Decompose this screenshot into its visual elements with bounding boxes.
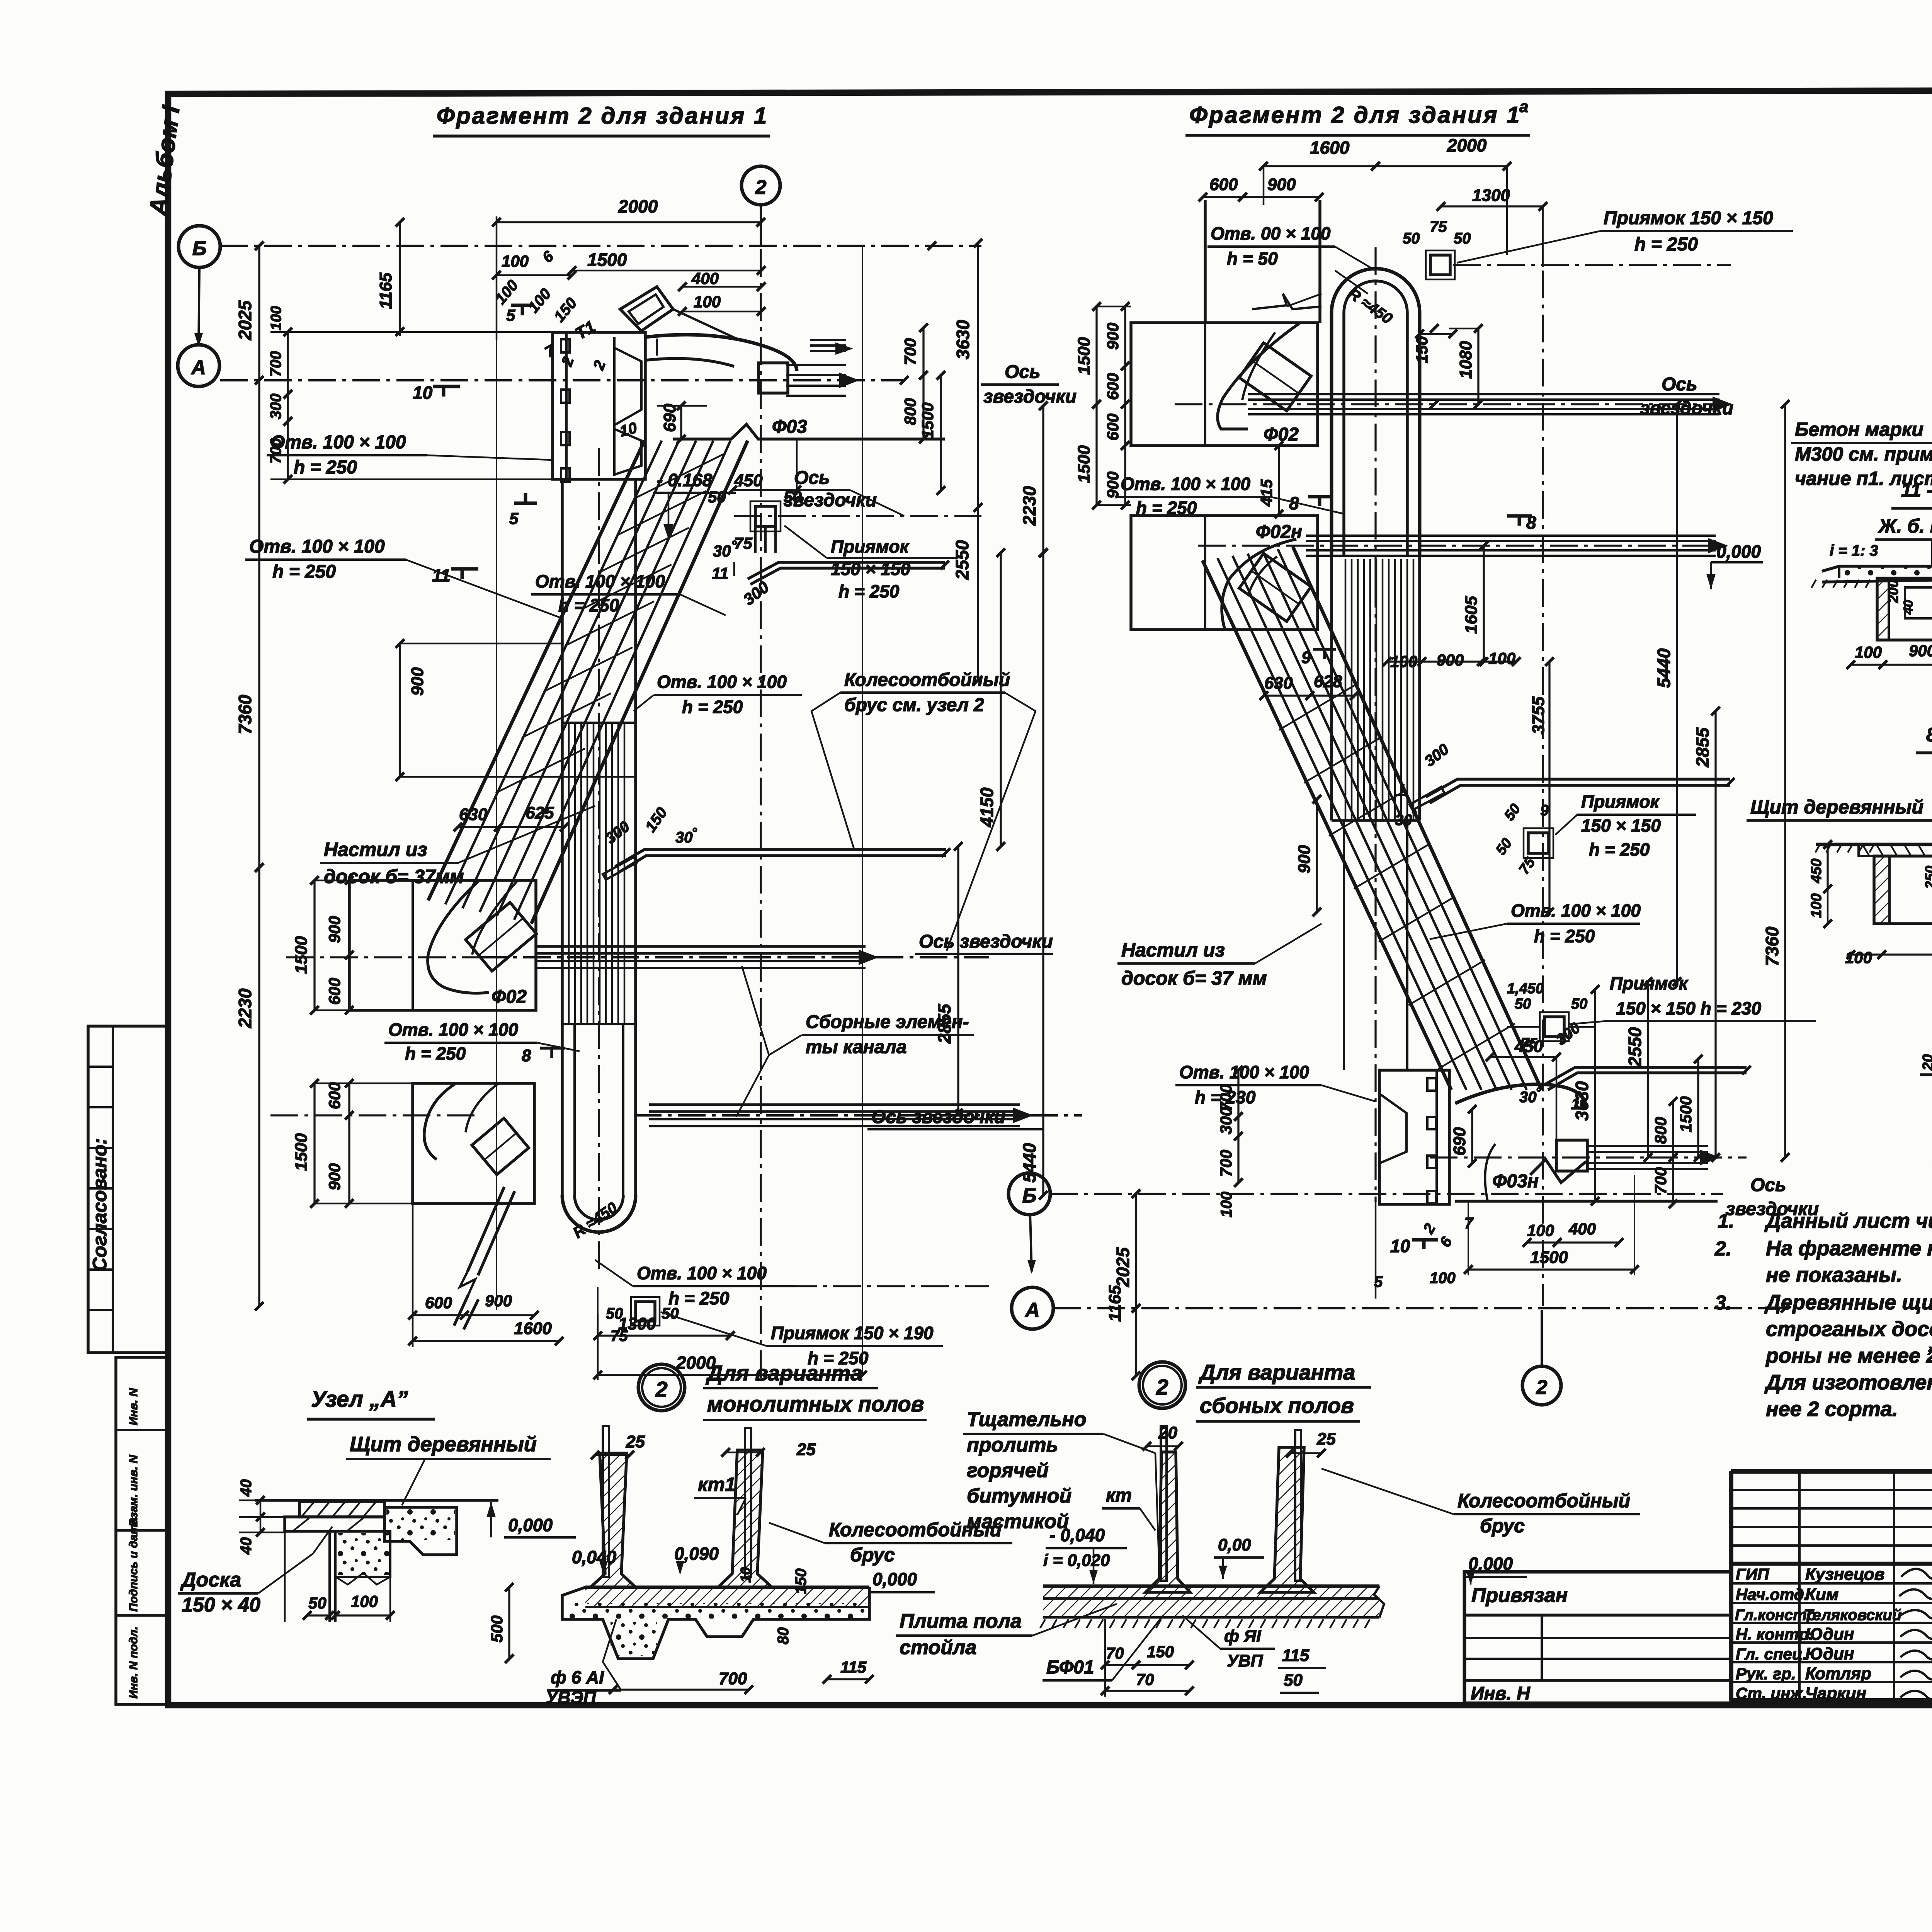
svg-text:досок б= 37 мм: досок б= 37 мм [1121,967,1267,989]
svg-text:Альбом I: Альбом I [144,104,185,218]
svg-text:Инв. Н: Инв. Н [1471,1683,1531,1704]
wheel guard rail 2 right fragment [1545,1067,1747,1084]
svg-text:1500: 1500 [292,1133,311,1171]
svg-text:звездочки: звездочки [1640,398,1733,419]
break mark in column [1252,294,1321,309]
svg-text:450: 450 [1808,859,1825,883]
svg-text:150: 150 [793,1568,810,1594]
svg-text:1600: 1600 [1310,138,1350,158]
axis link Б-А left [199,267,199,345]
svg-text:600: 600 [1104,414,1122,441]
svg-text:не показаны.: не показаны. [1766,1263,1902,1287]
grid line 2 vertical right fragment [1542,271,1544,1306]
svg-text:1500: 1500 [587,250,627,270]
dimension 450 FO3n [1490,1056,1556,1058]
section 6-6 ground line [1920,1073,1932,1076]
svg-text:Отв. 100 × 100: Отв. 100 × 100 [657,672,787,692]
svg-text:брус см. узел 2: брус см. узел 2 [844,695,984,715]
title block lower rows [1731,1582,1932,1585]
monolithic floor slab [585,1586,869,1589]
deck plank hatching on band [634,454,723,499]
precast left curb [1146,1452,1190,1592]
svg-text:2: 2 [1156,1375,1168,1399]
svg-text:500: 500 [488,1615,506,1643]
svg-text:900: 900 [1267,175,1296,194]
svg-text:100: 100 [1488,649,1515,667]
svg-text:150: 150 [1147,1643,1174,1661]
svg-text:а: а [1519,97,1528,116]
right dim chain right fragment [1647,982,1649,1157]
svg-text:ф 6 АI: ф 6 АI [551,1667,604,1687]
svg-text:0,040: 0,040 [572,1547,617,1567]
svg-text:Ось: Ось [794,468,830,488]
svg-text:800: 800 [901,398,919,425]
svg-text:горячей: горячей [967,1459,1049,1482]
svg-text:100: 100 [268,306,284,330]
node A wood shield band [299,1501,384,1517]
svg-text:Ось: Ось [1750,1175,1786,1195]
svg-text:3755: 3755 [1529,696,1548,734]
svg-text:100: 100 [502,252,529,270]
svg-text:100: 100 [1845,948,1872,967]
svg-text:Ось: Ось [1005,362,1041,382]
svg-text:Отв. 100 × 100: Отв. 100 × 100 [249,536,385,557]
svg-text:2: 2 [655,1377,667,1401]
svg-text:Н. контр.: Н. контр. [1736,1625,1813,1643]
svg-text:М300 см. приме-: М300 см. приме- [1795,443,1932,465]
node A deck top line [255,1499,498,1502]
U-turn loop right fragment [1332,269,1420,557]
svg-text:h = 250: h = 250 [682,697,743,717]
svg-text:25: 25 [796,1440,816,1459]
wheel guard rail 2 left fragment [615,849,946,866]
node A dims [260,1500,262,1517]
svg-text:1500: 1500 [1677,1096,1695,1132]
svg-text:300: 300 [1217,1107,1235,1134]
svg-text:300: 300 [267,393,284,419]
dimension 100 900 100 right [1387,660,1422,662]
axis line А left fragment [220,379,904,381]
svg-text:75: 75 [734,534,752,552]
svg-text:50: 50 [1571,996,1587,1012]
precast left plank [1161,1426,1167,1581]
svg-text:80: 80 [775,1627,792,1645]
svg-text:1605: 1605 [1462,596,1481,634]
svg-text:Настил из: Настил из [1121,939,1225,961]
channel FO3 exit rails upper [810,339,846,341]
section 8-8 wood deck [1859,844,1932,856]
svg-text:9: 9 [1301,648,1311,667]
svg-text:628: 628 [1314,672,1342,691]
svg-text:40: 40 [238,1479,255,1497]
svg-text:Тщательно: Тщательно [967,1408,1087,1431]
svg-text:Гл. спец.: Гл. спец. [1736,1645,1807,1663]
svg-text:R ≈450: R ≈450 [1345,285,1396,327]
svg-text:700: 700 [1217,1150,1235,1177]
svg-text:100: 100 [1527,1221,1554,1239]
svg-text:h = 250: h = 250 [1589,839,1650,860]
dimension 690 FO3 [680,406,682,439]
svg-text:нее 2 сорта.: нее 2 сорта. [1766,1398,1898,1421]
dimension 900 right [1316,799,1318,912]
svg-text:5440: 5440 [1019,1143,1039,1183]
svg-text:6: 6 [539,247,557,266]
svg-text:150: 150 [551,294,580,325]
svg-text:10: 10 [1390,1236,1410,1256]
svg-text:°: ° [731,538,737,553]
section mark 5 lower [514,502,537,505]
svg-text:1080: 1080 [1456,341,1475,379]
svg-text:Б: Б [1022,1185,1037,1207]
section 11-11 bottom dims [1851,664,1883,666]
svg-text:i = 1: 3: i = 1: 3 [1830,542,1878,559]
svg-text:115: 115 [840,1658,867,1676]
svg-text:625: 625 [526,803,554,822]
small box FO3 exit [759,363,788,393]
svg-text:3630: 3630 [953,320,973,359]
svg-text:Б: Б [192,237,207,260]
long extension line x1285 left fragment [496,226,497,1310]
svg-text:h = 250: h = 250 [294,457,357,478]
precast right plank [1295,1430,1301,1581]
deck plank hatching on right band [1279,685,1355,730]
svg-text:Сборные элемен-: Сборные элемен- [806,1012,969,1032]
svg-text:150: 150 [1413,336,1431,363]
channel FO3 exit rails [786,364,846,366]
svg-text:100: 100 [1855,643,1882,661]
svg-text:Ось звездочки: Ось звездочки [919,931,1053,952]
svg-text:40: 40 [1901,600,1916,615]
long extension line x1547 left fragment [597,1287,599,1380]
svg-text:кт: кт [1106,1485,1132,1506]
svg-text:100: 100 [1430,1270,1456,1287]
svg-text:40: 40 [238,1537,255,1555]
svg-text:70: 70 [1106,1644,1124,1662]
svg-text:Приямок: Приямок [831,536,910,557]
svg-text:600: 600 [325,978,344,1005]
svg-text:100: 100 [1808,894,1825,918]
dimension 2230 right fragment [1042,406,1044,553]
svg-text:0,00: 0,00 [1218,1535,1251,1554]
svg-text:7360: 7360 [235,694,255,734]
svg-text:h = 50: h = 50 [1227,249,1278,269]
node A plank 150x40 [285,1517,384,1531]
svg-text:ф ЯI: ф ЯI [1224,1627,1261,1646]
svg-text:Инв. N: Инв. N [127,1388,140,1425]
pit square B right fragment [1544,1017,1564,1037]
right dim chain 700 800 1500 2550 3630 left fragment [922,328,924,375]
FO2n exit rails right fragment / axis R2 [1306,534,1716,537]
dimension 150 right [1434,329,1435,404]
pit square bottom left fragment [636,1302,655,1321]
svg-text:7360: 7360 [1762,926,1782,966]
svg-text:50: 50 [1493,835,1515,858]
svg-text:30: 30 [713,542,731,560]
svg-text:150 × 150 h = 230: 150 × 150 h = 230 [1616,998,1761,1018]
svg-text:Привязан: Привязан [1471,1584,1568,1607]
svg-text:Узел „А”: Узел „А” [311,1387,408,1412]
svg-text:900: 900 [485,1292,512,1310]
svg-text:8: 8 [522,1046,531,1065]
svg-text:1500: 1500 [1530,1248,1568,1267]
svg-text:700: 700 [1217,1084,1235,1111]
svg-text:Юдин: Юдин [1805,1644,1854,1663]
axis circle А right [1012,1287,1053,1329]
svg-text:Щит деревянный: Щит деревянный [1750,796,1923,818]
svg-text:2.: 2. [1714,1238,1731,1260]
svg-text:75: 75 [1430,218,1447,235]
monolithic right curb KT1 [718,1450,772,1587]
wheel guard rail 1 right fragment [1426,779,1730,797]
channel box top left fragment [553,332,645,479]
svg-text:2230: 2230 [1019,486,1039,526]
svg-text:10: 10 [738,1567,753,1583]
dimension 1165 right [1135,1308,1137,1376]
node A foundation strip [335,1531,390,1577]
extension verticals right fragment bottom [1468,1201,1469,1275]
conveyor channel diagonal band right fragment [1202,560,1451,1090]
dimension 2000 top left fragment [496,216,498,340]
svg-text:1165: 1165 [376,272,395,309]
svg-text:Ось звездочки: Ось звездочки [871,1107,1005,1127]
channel box lower left fragment [413,1083,534,1203]
dimension 3755 right [1548,662,1550,912]
svg-text:50: 50 [308,1594,327,1612]
svg-text:300: 300 [740,578,772,609]
svg-text:115: 115 [1282,1646,1310,1665]
svg-text:Взам. инв. N: Взам. инв. N [127,1454,140,1527]
svg-text:УВП: УВП [1227,1651,1264,1670]
svg-text:50: 50 [1284,1671,1303,1690]
svg-text:Согласовано:: Согласовано: [89,1138,111,1272]
svg-text:А: А [190,356,206,379]
dimension chain left top box [287,332,289,394]
svg-text:800: 800 [1651,1117,1670,1144]
svg-text:роны не менее 2: роны не менее 2 [1765,1344,1932,1367]
svg-text:⊥: ⊥ [1394,782,1408,799]
svg-text:Чаркин: Чаркин [1805,1684,1866,1703]
svg-text:h = 250: h = 250 [272,562,336,582]
svg-text:0,000: 0,000 [508,1515,553,1535]
mid rails bundle left fragment [537,945,866,948]
svg-text:2: 2 [1420,1220,1439,1237]
wheel guard rail 1 left fragment [748,562,945,579]
long extension line x2232 left fragment [862,246,863,1375]
svg-text:1300: 1300 [618,1314,656,1333]
svg-text:20: 20 [1920,1054,1932,1071]
axis line Б left fragment [220,245,981,247]
bottom dims right fragment [1237,1070,1239,1117]
dimension 415 right fragment [1278,446,1280,514]
svg-text:h = 250: h = 250 [405,1043,466,1064]
precast bottom dims [1105,1664,1136,1666]
svg-text:Котляр: Котляр [1805,1664,1871,1683]
dimension 600 900 right fragment [1203,196,1243,198]
axis line А right fragment [1053,1307,1789,1309]
svg-text:100: 100 [1390,652,1417,671]
svg-text:2: 2 [558,354,577,369]
dimension 630 625 band [458,826,498,828]
svg-text:100: 100 [694,293,721,311]
svg-text:i = 0,020: i = 0,020 [1043,1551,1110,1570]
svg-text:Колесоотбойный: Колесоотбойный [844,670,1010,690]
svg-text:700: 700 [1651,1167,1670,1194]
dimension 1080 right [1477,329,1479,404]
svg-text:30: 30 [1519,1089,1537,1106]
axis line Б right fragment [1050,1193,1723,1195]
svg-text:пролить: пролить [967,1434,1058,1456]
pit square A right fragment [1528,833,1549,853]
dimension 2025 right [1135,1194,1137,1308]
svg-text:°: ° [1411,808,1417,822]
svg-text:25: 25 [626,1432,645,1451]
svg-text:200: 200 [1885,580,1901,603]
title block outer [1731,1469,1932,1474]
svg-text:Отв. 00 × 100: Отв. 00 × 100 [1211,223,1331,243]
dimension 2230 left [258,868,260,1306]
svg-text:Деревянные щиты изготовлять по: Деревянные щиты изготовлять по месту спл… [1764,1291,1932,1314]
svg-text:700: 700 [267,438,284,464]
svg-text:150 × 150: 150 × 150 [1581,815,1661,836]
svg-text:1500: 1500 [1075,445,1094,483]
vertical channel strip left fragment [561,479,564,1195]
svg-text:Приямок 150 × 150: Приямок 150 × 150 [1604,208,1773,228]
extension lines right fragment top [1263,166,1264,200]
svg-text:150 × 40: 150 × 40 [182,1594,260,1616]
channel box FO2 right fragment [1131,323,1318,446]
dimension 1605 right [1483,546,1485,662]
svg-text:1500: 1500 [1075,337,1094,375]
svg-text:°: ° [1536,1085,1541,1100]
svg-text:11: 11 [712,564,729,582]
svg-text:ГИП: ГИП [1736,1565,1769,1583]
svg-text:монолитных полов: монолитных полов [707,1392,924,1416]
lower rails bundle left fragment [649,1103,1020,1106]
dimension 450 under FO3 [733,489,797,491]
svg-text:900: 900 [1104,323,1122,350]
svg-text:450: 450 [734,471,763,490]
U-turn loop left fragment [562,1195,636,1232]
dims 100 400 1500 bottom right [1527,1241,1557,1243]
svg-text:700: 700 [719,1669,747,1688]
channel box FO2n right fragment [1131,516,1318,630]
svg-text:2025: 2025 [1113,1247,1133,1287]
monolithic left curb [590,1453,636,1587]
svg-text:Ось: Ось [1662,374,1697,395]
svg-text:50: 50 [1403,230,1420,247]
vertical channel lower rails left fragment [573,1024,576,1195]
svg-text:2550: 2550 [952,540,972,580]
svg-text:600: 600 [1209,175,1238,194]
svg-text:20: 20 [1158,1423,1177,1442]
title block verticals [1798,1471,1801,1701]
svg-text:Бетон марки: Бетон марки [1795,419,1923,440]
section 8-8 trench [1874,856,1932,924]
svg-text:На фрагменте конструкции перек: На фрагменте конструкции перекрытия кана… [1766,1237,1932,1260]
svg-text:Нач.отд.: Нач.отд. [1736,1585,1808,1603]
svg-text:100: 100 [1218,1192,1235,1217]
svg-text:Для варианта: Для варианта [706,1361,862,1385]
svg-text:- 0,040: - 0,040 [1049,1525,1105,1545]
svg-text:9: 9 [1540,802,1549,819]
svg-text:11 - 11: 11 - 11 [1901,479,1932,501]
svg-text:50: 50 [1501,801,1524,824]
section 11-11 slab [1822,561,1932,571]
svg-text:2: 2 [590,358,609,373]
svg-text:900: 900 [1104,472,1122,499]
svg-text:звездочки: звездочки [983,386,1077,407]
svg-text:30: 30 [675,829,693,846]
svg-text:900: 900 [325,916,344,943]
title block upper rows [1731,1489,1932,1491]
svg-text:УВЭП: УВЭП [546,1687,596,1707]
svg-text:1500: 1500 [292,936,311,974]
svg-text:кт1: кт1 [698,1474,736,1495]
monolithic bottom dims [508,1587,510,1659]
left dims right fragment [1124,306,1126,366]
svg-text:брус: брус [850,1544,895,1566]
svg-text:Отв. 100 × 100: Отв. 100 × 100 [1179,1062,1309,1082]
svg-text:Отв. 100 × 100: Отв. 100 × 100 [1121,474,1250,494]
dimension 7360 left [258,380,260,868]
svg-text:А: А [1024,1299,1040,1321]
node A concrete block [384,1507,457,1555]
grid line 2 vertical left fragment [760,205,762,1378]
svg-text:0,000: 0,000 [1716,541,1761,562]
detail circle 2 monolithic [638,1364,685,1411]
axis circle А left [178,345,219,386]
section 8-8 ground line [1816,843,1932,846]
svg-text:Т1: Т1 [572,317,599,344]
svg-text:630: 630 [459,805,488,824]
svg-text:2: 2 [1536,1376,1548,1399]
upper outline right fragment column [1204,200,1207,323]
margin table Согласовано [88,1026,168,1353]
channel box FO2 left fragment [349,880,536,1010]
svg-text:70: 70 [1136,1670,1154,1689]
svg-text:Фрагмент 2 для здания 1: Фрагмент 2 для здания 1 [437,103,768,129]
svg-text:0,090: 0,090 [674,1544,719,1564]
section 8-8 bottom dims [1851,953,1882,955]
channel FO3n right fragment [1455,1084,1586,1109]
svg-text:700: 700 [901,338,919,365]
svg-text:5: 5 [506,306,515,324]
section mark 5 top [511,304,534,307]
dimension 690 FO3n [1471,1109,1473,1163]
axis circle Б left [179,226,220,267]
detail circle 2 precast [1139,1362,1185,1408]
dimension 900 mid left [399,643,401,777]
svg-text:700: 700 [267,351,284,377]
sprocket axis 2 left fragment [734,515,981,517]
dims left of FO2 box [313,880,315,1010]
svg-text:стойла: стойла [900,1636,976,1659]
grid circle 2 lower right with line [1522,1366,1561,1405]
svg-text:3.: 3. [1715,1292,1731,1314]
precast right curb [1260,1447,1314,1592]
svg-text:400: 400 [1568,1220,1596,1238]
svg-text:х: х [1927,1342,1932,1358]
svg-text:2855: 2855 [1692,727,1713,768]
svg-text:Отв. 100 × 100: Отв. 100 × 100 [637,1263,767,1283]
dimension 400 100 top [682,286,761,288]
svg-text:1,450: 1,450 [1507,980,1544,997]
svg-text:900: 900 [325,1163,344,1190]
svg-text:Инв. N подл.: Инв. N подл. [127,1626,140,1699]
svg-text:1500: 1500 [918,403,937,439]
svg-text:2025: 2025 [235,300,255,340]
channel FO3 curve left fragment [646,335,797,371]
